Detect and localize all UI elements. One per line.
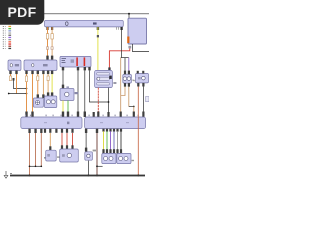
B1 wire tan to ECU — [121, 87, 125, 96]
PDF badge — [0, 0, 44, 25]
relay bottom red wire to ECU — [97, 88, 99, 117]
wire B2 red crossing ECU to ground — [137, 87, 139, 176]
oxygen sensor S2 — [117, 153, 131, 163]
node junction on top line — [128, 13, 130, 15]
battery lower connector — [128, 46, 131, 49]
ECU red wires to coil pack D2 — [61, 129, 63, 133]
bus label glyph 2 — [93, 22, 97, 24]
fuse box U3 — [60, 56, 91, 67]
wire L1 pin2 orange — [16, 74, 18, 94]
B2 label — [133, 80, 135, 81]
wire U3 pin1 to coil C3 — [62, 70, 64, 85]
splice wire black elbow 1 — [13, 78, 15, 81]
connector cap red wire — [108, 67, 110, 70]
ECU ground wire 43 — [96, 129, 98, 133]
wire L2 pin4 tan to sensor C1 — [42, 74, 44, 98]
B2 top caps — [137, 71, 139, 74]
ECU pin number labels — [25, 115, 139, 117]
splice wire black line 2 — [9, 93, 27, 95]
ECU bottom pins left group brown — [28, 129, 30, 133]
wire L2 pin5 tan to sensor C2 — [47, 74, 49, 96]
fuse red bar 1 — [76, 57, 78, 66]
wire L1 pin1 orange — [10, 74, 12, 79]
L1 pin caps — [9, 71, 11, 75]
wire stub from top line to battery box — [128, 14, 130, 18]
sensor C2 — [44, 96, 56, 108]
wire U3 pin3 black to ECU — [84, 70, 86, 117]
ECU bus bar right segment — [85, 117, 146, 129]
coil pack D2 — [61, 145, 63, 149]
connector box L2 — [24, 60, 57, 71]
svg-text:PDF: PDF — [8, 4, 37, 20]
bus end hatch — [117, 27, 119, 30]
connector box L1 — [8, 60, 21, 71]
C3 bottom wires yellow and green to ECU — [62, 101, 64, 118]
ECU bus bar left segment — [21, 117, 82, 129]
main relay U2 — [95, 70, 113, 87]
ground bus — [10, 175, 145, 177]
ECU pin pair and wire to injector D1 — [44, 129, 46, 133]
ECU sensor harness wires — [102, 129, 104, 132]
wire U3 pin4 black elbow to relay — [90, 70, 109, 102]
D3 ground wire — [87, 161, 89, 175]
brown ground wires — [29, 133, 31, 175]
top border line — [44, 13, 149, 15]
wire red from battery to relay — [109, 48, 129, 67]
harness caps — [102, 149, 104, 153]
label tag right edge — [146, 97, 149, 102]
injector D1 — [49, 146, 51, 150]
B1 bottom caps — [124, 83, 126, 87]
wire L2 pin6 yellow to sensor C2 — [51, 74, 53, 96]
fused feed wire 2 from bus — [51, 27, 54, 60]
socket box B1 — [123, 74, 132, 83]
relay bottom black wire elbow — [108, 88, 110, 117]
fused feed wire 1 from bus — [46, 27, 49, 60]
B2 bottom caps — [137, 83, 139, 87]
bus label glyph 1 — [66, 22, 69, 26]
socket box B2 — [136, 73, 149, 83]
B1 label — [132, 80, 134, 81]
sensor C1 — [33, 98, 43, 107]
harness colored wires — [103, 131, 105, 150]
ECU black wire to sensor D3 — [85, 129, 87, 133]
power bus bar top — [45, 20, 124, 27]
splice line — [30, 165, 42, 167]
wire L2 pin2 orange to ECU — [32, 74, 34, 117]
sensor D3 — [85, 152, 93, 160]
legend color list — [3, 26, 11, 49]
L2 pin caps bottom — [25, 71, 27, 75]
wire L2 pin3 orange to sensor C1 — [37, 74, 39, 98]
ground symbol — [5, 171, 7, 175]
fuse red bar 2 — [84, 57, 86, 66]
ECU internal label — [67, 122, 69, 125]
B1 wire tan jog to ECU — [128, 87, 130, 107]
B1 top caps — [124, 71, 126, 75]
battery box U1 — [128, 18, 147, 44]
ignition coil C3 — [60, 89, 74, 101]
wire L2 pin1 orange to ECU — [26, 74, 28, 117]
battery orange terminal — [127, 37, 129, 44]
yellow feed wire from bus to relay U2 — [97, 27, 99, 71]
B2 wire black to ECU — [142, 87, 144, 118]
wire U3 pin2 black to ECU — [77, 70, 79, 117]
U3 pin caps — [62, 67, 64, 70]
black feed wire right with split — [120, 27, 128, 117]
oxygen sensor S1 — [102, 153, 116, 163]
right side line — [132, 44, 149, 52]
